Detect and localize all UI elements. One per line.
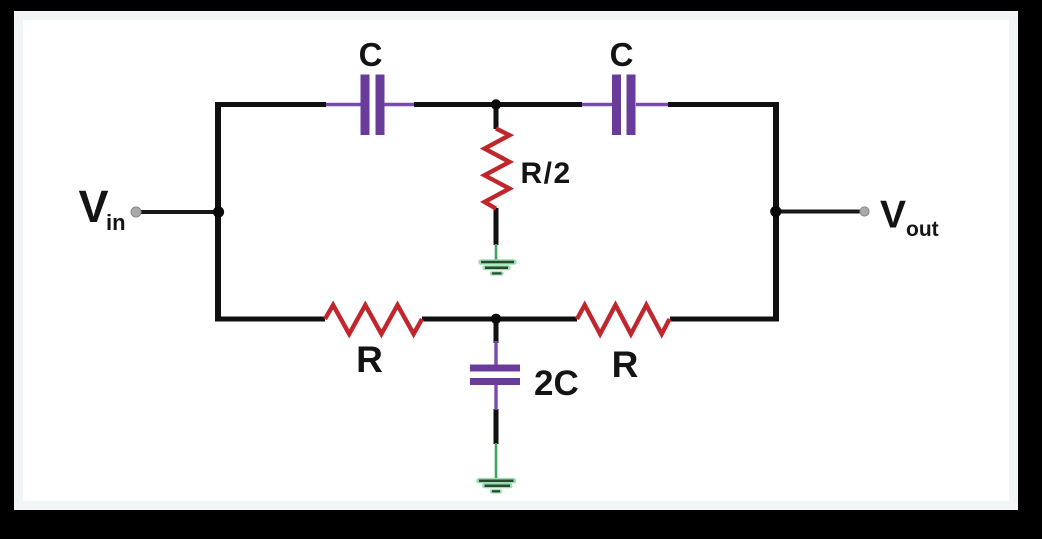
svg-text:2C: 2C [534, 364, 579, 403]
svg-text:V: V [880, 194, 906, 237]
svg-text:C: C [610, 36, 634, 73]
svg-text:in: in [106, 210, 126, 235]
svg-text:R: R [356, 339, 383, 380]
svg-text:R/2: R/2 [521, 157, 572, 190]
svg-text:C: C [359, 36, 383, 73]
svg-text:R: R [612, 344, 639, 385]
svg-text:V: V [79, 181, 109, 232]
svg-text:out: out [906, 218, 939, 241]
